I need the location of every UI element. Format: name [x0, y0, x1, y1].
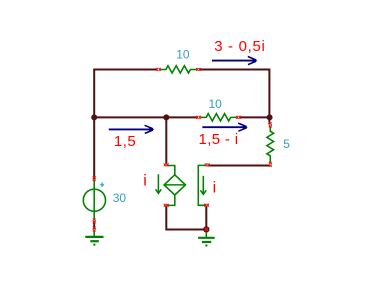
- svg-text:3 - 0,5i: 3 - 0,5i: [214, 38, 265, 55]
- svg-text:10: 10: [209, 97, 223, 111]
- svg-text:30: 30: [113, 191, 127, 205]
- svg-text:1,5: 1,5: [114, 133, 136, 150]
- svg-text:1,5 - i: 1,5 - i: [199, 131, 239, 148]
- svg-text:5: 5: [283, 137, 290, 151]
- svg-text:i: i: [213, 179, 217, 196]
- svg-text:10: 10: [176, 48, 190, 62]
- svg-text:i: i: [143, 173, 147, 190]
